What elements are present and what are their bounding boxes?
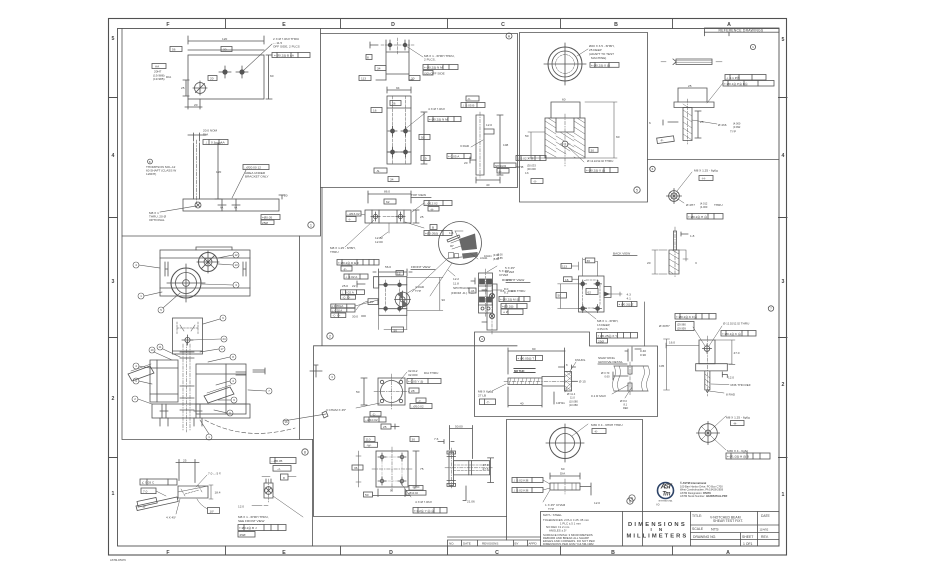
svg-text:SPF10/20: SPF10/20 [495,165,507,168]
svg-text:REVISIONS: REVISIONS [482,542,498,546]
svg-text:(29.980: (29.980 [677,323,686,327]
dim 86.0 [368,191,411,203]
svg-text:0.1: 0.1 [211,141,216,145]
centerline [504,380,576,382]
svg-text:6: 6 [652,167,654,171]
svg-text:-P-: -P- [660,139,664,143]
svg-text:90°: 90° [450,244,454,248]
lower-left frames [331,304,355,308]
bolt plain shank [542,377,565,387]
svg-text:34: 34 [390,178,394,182]
svg-text:BACK VIEW: BACK VIEW [613,252,630,256]
svg-text:⊥ 0.02 A: ⊥ 0.02 A [342,290,355,294]
svg-text:30: 30 [223,48,227,52]
svg-text:20: 20 [194,103,198,107]
svg-text:⌖ Ø0.2Ⓜ M Ⓜ: ⌖ Ø0.2Ⓜ M Ⓜ [500,298,519,302]
leader to holes [244,44,272,70]
svg-text:Ø 4H7: Ø 4H7 [686,203,695,207]
svg-text:16: 16 [565,278,569,282]
svg-text:⌖ Ø0.2Ⓜ B J: ⌖ Ø0.2Ⓜ B J [239,526,257,530]
svg-text:3: 3 [695,261,697,265]
50 dim left [558,284,579,309]
svg-text:DIA THRU: DIA THRU [511,289,525,293]
svg-text:8: 8 [629,499,631,503]
wedge right [204,387,234,403]
title block left cell text [543,513,595,546]
svg-text:36: 36 [354,466,358,470]
svg-text:-A-: -A- [430,208,434,212]
balloon 1 [138,292,162,299]
svg-text:⌖ Ø0.2Ⓜ D E F: ⌖ Ø0.2Ⓜ D E F [338,261,359,265]
lower exploded assembly [128,318,328,433]
svg-text:AA: AA [221,141,226,145]
svg-text:DATE: DATE [463,542,471,546]
lower plate [387,96,411,164]
svg-text:TYP: TYP [730,130,736,134]
dim 50 left [361,378,367,405]
svg-text:-T-: -T- [486,400,490,404]
svg-text:(8.85: (8.85 [497,257,503,260]
svg-text:1: 1 [752,45,754,49]
svg-text:E: E [282,550,286,556]
svg-text:⌖ Ø0.05Ⓜ T: ⌖ Ø0.05Ⓜ T [518,356,535,360]
svg-text:E: E [282,22,286,28]
svg-text:10°: 10° [210,509,215,513]
feature frame [447,154,471,159]
tapped hole top view [667,172,724,219]
dim 20 bottom [185,99,202,109]
svg-text:⊥ 0.1 PⒷ: ⊥ 0.1 PⒷ [726,75,740,80]
adapter ring [548,47,582,81]
12 box [396,271,404,276]
svg-text:3 RAD: 3 RAD [460,144,470,148]
circled B note [148,159,153,164]
svg-text:MACHINE): MACHINE) [591,56,606,60]
circled 1 panel id [308,222,314,228]
slanted grip bar [136,497,178,511]
svg-text:60: 60 [616,135,620,139]
svg-text:4: 4 [135,263,137,267]
svg-text:Ø 0.70: Ø 0.70 [601,371,610,375]
balloon 4 upper [133,262,160,268]
svg-text:108: 108 [503,143,508,147]
svg-text:Ø 12.22/12.02 THRU: Ø 12.22/12.02 THRU [587,159,613,163]
svg-text:8 RAD: 8 RAD [726,393,736,397]
dim 8 above head [559,365,576,369]
62 box inside [586,289,598,295]
svg-text:CHAM: CHAM [505,270,515,274]
svg-text:11.0: 11.0 [570,396,575,400]
svg-text:0.1 R MAX: 0.1 R MAX [591,394,606,398]
svg-text:⊥ 0.05 B: ⊥ 0.05 B [462,104,475,108]
title block outline [541,512,780,547]
svg-text:⌖ Ø0.25Ⓜ X Y: ⌖ Ø0.25Ⓜ X Y [598,334,618,338]
leader 4x [400,482,411,497]
svg-text:25: 25 [181,86,185,90]
svg-text:6: 6 [222,316,224,320]
circled 2 panel id [327,333,333,339]
svg-text:(FROM -D-): (FROM -D-) [451,291,467,295]
8.0 REF leader [625,387,632,398]
svg-text:3 CHAM X 45°: 3 CHAM X 45° [326,408,347,412]
dim 120 top [188,36,264,50]
spotface circle [395,292,410,307]
svg-text:SCALE: SCALE [692,527,704,531]
feature frame [238,525,286,531]
datum -C- [466,96,479,101]
svg-text:86.0: 86.0 [384,190,390,194]
label boxes 56 / 30 [170,47,182,52]
svg-text:AA: AA [234,207,238,210]
svg-text:2: 2 [329,334,331,338]
svg-text:DIMENSIONS: DIMENSIONS [628,522,685,528]
svg-text:-N-: -N- [376,169,380,173]
zone tick marks bottom [226,546,673,555]
frame [517,356,543,361]
left datum stack [344,274,368,279]
snap ring groove label underline [598,363,627,365]
svg-text:KNURL: KNURL [575,358,586,362]
svg-text:8.1: 8.1 [624,403,628,407]
svg-text:(4.012: (4.012 [700,202,708,206]
svg-text:⌖ Ø0.2Ⓜ K FⒷ: ⌖ Ø0.2Ⓜ K FⒷ [676,315,697,319]
svg-text:5: 5 [112,36,115,42]
svg-text:8: 8 [232,355,234,359]
svg-text:REV.: REV. [761,535,769,539]
feature frame (holes) [272,53,310,58]
right feature stack [424,201,452,206]
svg-text:10: 10 [150,348,154,352]
svg-text:-J-: -J- [277,467,281,471]
svg-text:47.0: 47.0 [734,351,740,355]
balloons lower assembly [132,315,335,440]
groove width dim top [625,347,641,361]
dims upper plate [370,42,413,80]
svg-text:30: 30 [587,259,591,263]
right: M8 pin detail [270,458,296,464]
svg-text:DIA THRU: DIA THRU [424,371,438,375]
svg-text:4 X Ø 7.0/6.8: 4 X Ø 7.0/6.8 [415,500,432,504]
svg-text:5: 5 [782,37,785,43]
square plate with bore [378,378,405,405]
view: guide plate outline [188,55,264,99]
svg-text:4: 4 [112,153,115,159]
feature frame [423,65,458,70]
dim 120 shaft [215,143,221,199]
18.4 dim [209,485,213,499]
zone tick marks left [109,98,118,458]
svg-text:2: 2 [112,396,115,402]
svg-text:⌖ 0.2Ⓜ Y Ⓜ Ⓜ: ⌖ 0.2Ⓜ Y Ⓜ Ⓜ [414,509,434,513]
dashed motion curve [205,420,295,433]
circled 1 top right [750,44,755,49]
right L bracket [476,115,484,175]
svg-text:M8 X 1.25 - 6g6g: M8 X 1.25 - 6g6g [694,169,718,173]
dim 90 [508,348,565,374]
svg-text:⌖ Ø0.1Ⓜ K Ⓜ: ⌖ Ø0.1Ⓜ K Ⓜ [722,332,741,336]
svg-text:4 X 45°: 4 X 45° [166,516,177,520]
svg-text:3: 3 [782,279,785,285]
boxes around plate2 [364,437,375,442]
svg-text:⊥: ⊥ [205,141,208,145]
detail circle [439,222,482,265]
knurl leader [570,362,576,371]
svg-text:28: 28 [411,389,415,393]
svg-text:2: 2 [134,397,136,401]
wedge block [178,486,208,498]
svg-text:(29.959: (29.959 [677,326,686,330]
circled 8 panel id [302,449,308,455]
svg-text:-M-: -M- [471,289,476,293]
svg-text:50: 50 [558,294,562,298]
svg-text:⌖ Ø0.1Ⓜ PⒷ FⒷ: ⌖ Ø0.1Ⓜ PⒷ FⒷ [724,82,748,86]
bold thread label [514,369,535,373]
svg-text:16: 16 [373,109,377,113]
svg-text:1: 1 [782,492,785,498]
20 box [208,76,217,81]
svg-text:-F-: -F- [343,268,347,272]
svg-text:⊥ 0.02 X Ⓜ: ⊥ 0.02 X Ⓜ [517,156,533,161]
svg-text:OFF SIDE, 2 PLCS: OFF SIDE, 2 PLCS [273,45,300,49]
base plate [152,404,250,418]
cham leader [543,490,550,502]
svg-text:4 PLCS: 4 PLCS [597,327,608,331]
svg-text:AA: AA [155,65,160,69]
svg-text:⊥ 0.02 A: ⊥ 0.02 A [332,308,343,312]
svg-text:Ø 12.02/12.02 THRU: Ø 12.02/12.02 THRU [723,322,749,326]
svg-text:90: 90 [442,298,446,302]
right view small [487,284,497,330]
svg-text:REFERENCE DRAWINGS: REFERENCE DRAWINGS [719,29,764,33]
circled 5 panel id [634,187,640,193]
panel P6 border (upper-middle-right: test-machine adapter) [520,33,648,203]
svg-text:120FH): 120FH) [146,172,156,176]
4 RAD leader [406,289,414,294]
small right view column part [479,273,493,313]
dim 60 [550,473,580,479]
svg-text:⌖ Ø0.2Ⓜ N M: ⌖ Ø0.2Ⓜ N M [429,118,448,122]
svg-text:⌴Ø16.02: ⌴Ø16.02 [347,212,360,216]
svg-text:60: 60 [270,74,274,78]
channel side view (T shape) [449,452,454,485]
zone tick marks top [226,19,673,29]
svg-text:30: 30 [591,149,595,153]
svg-text:⌖ Ø0.2Ⓜ Z: ⌖ Ø0.2Ⓜ Z [619,302,634,306]
dim 60 right [585,102,617,158]
svg-text:⌴Ø0.05: ⌴Ø0.05 [272,459,283,463]
svg-text:8: 8 [367,56,369,60]
dims [666,343,699,348]
leader [406,46,423,57]
dim 40 bottom [476,177,500,183]
svg-text:27 LB: 27 LB [478,394,486,398]
washer ring [550,428,581,459]
balloon 3 [202,282,239,288]
svg-text:TYP: TYP [548,507,554,511]
panel P10 border (washer) [507,420,643,547]
bolt cross AA1 [218,199,226,211]
ASTM copyright text [680,481,728,498]
svg-text:⌴Ø10.02: ⌴Ø10.02 [407,491,418,495]
FRONT VIEW label underline [411,269,435,271]
svg-text:9: 9 [233,398,235,402]
dim 20 right [279,195,285,199]
bolt head knurled [565,372,572,392]
spindle top block [699,340,715,364]
upper plate [386,40,409,80]
svg-text:0.60: 0.60 [605,375,611,379]
svg-text:25: 25 [688,84,692,88]
outer border frame [109,19,787,556]
svg-text:6: 6 [229,411,231,415]
plate2 [376,451,408,487]
svg-text:⌴Ø10.02: ⌴Ø10.02 [365,418,378,422]
11.4 leader [565,388,567,392]
svg-text:12.0: 12.0 [594,501,600,505]
svg-text:9: 9 [135,379,137,383]
flange bar [696,364,728,371]
optional tapped hole [195,202,201,208]
svg-text:-H-: -H- [733,422,737,426]
svg-text:B: B [432,226,434,230]
svg-text:C: C [501,22,505,28]
svg-text:NO.: NO. [449,542,455,546]
svg-text:⌖ 0.05 Y Ⓜ: ⌖ 0.05 Y Ⓜ [408,380,423,384]
0.1 R MAX leader [612,385,628,394]
svg-text:NTS: NTS [711,528,719,532]
base plate [183,199,279,211]
svg-text:TITLE:: TITLE: [692,514,702,518]
svg-text:-Q-: -Q- [498,170,502,173]
svg-text:(10.080: (10.080 [569,403,578,407]
svg-text:8.2: 8.2 [504,291,509,295]
right block [196,364,246,414]
pin top right [236,372,246,375]
dims above [583,258,598,276]
svg-text:25Ø: 25Ø [262,221,268,225]
svg-text:18.4: 18.4 [215,491,221,495]
svg-text:120: 120 [216,170,221,174]
svg-text:-I-: -I- [348,218,351,222]
bottom frames [516,156,546,161]
svg-text:10H11: 10H11 [484,254,492,258]
svg-text:5: 5 [636,188,638,192]
svg-text:(4.000: (4.000 [733,122,741,126]
svg-text:1.3: 1.3 [449,231,454,235]
svg-text:34: 34 [377,67,381,71]
svg-text:INTERNATIONAL: INTERNATIONAL [658,500,672,503]
svg-text:7.0 ⌴ 5 ∇: 7.0 ⌴ 5 ∇ [208,472,221,476]
svg-text:M36 THD REF: M36 THD REF [731,383,751,387]
svg-text:ASTM-D5379: ASTM-D5379 [110,558,126,562]
bottom boxes [374,168,387,173]
svg-text:-C-: -C- [372,413,376,417]
svg-text:1 OF1: 1 OF1 [743,542,753,546]
left clamp block [150,360,178,402]
circled 9 near logo [629,495,635,501]
svg-text:30: 30 [412,438,416,442]
svg-text:3: 3 [112,279,115,285]
svg-text:(30) OFF SIDE: (30) OFF SIDE [424,72,445,76]
clip far right [322,411,328,418]
AA datum box [152,64,166,69]
svg-text:11/4/92: 11/4/92 [760,528,769,532]
svg-text:12: 12 [397,271,401,275]
svg-text:50: 50 [525,134,529,138]
svg-text:12.0: 12.0 [728,376,734,380]
svg-text:BY: BY [515,542,519,546]
svg-text:113: 113 [562,265,567,269]
base feature frame [261,215,280,220]
handle rod right [310,365,322,377]
svg-text:⌖ Ø0.2Ⓜ X Ⓜ: ⌖ Ø0.2Ⓜ X Ⓜ [591,63,610,67]
svg-text:M36 X 4 - 6g6g: M36 X 4 - 6g6g [727,449,748,453]
balloon 13 [218,262,239,268]
center column [183,342,190,432]
balloon 12 [218,252,239,258]
svg-text:Ø 30H7: Ø 30H7 [659,324,670,328]
svg-text:A: A [508,34,511,38]
M8 note with frames (notch area) [597,319,618,331]
svg-text:25Ø: 25Ø [240,533,246,537]
area frame [243,165,269,170]
snap ring groove detail segment [614,366,648,391]
svg-text:16: 16 [284,420,288,424]
title block right text [692,514,771,546]
upper assembly housing [160,250,250,296]
svg-text:8: 8 [283,476,285,480]
top view body [365,210,411,223]
svg-text:F: F [166,22,169,28]
svg-text:-C-: -C- [467,97,471,101]
panel P8 border (bolt & snap ring) [475,332,658,417]
TOP VIEW label underline [411,197,431,199]
svg-text:FRONT VIEW: FRONT VIEW [411,265,430,269]
circled 8 panel id P10 [627,498,633,504]
svg-text:I-D: I-D [656,503,660,507]
small screw right [253,368,265,374]
flatness frame [203,140,228,145]
bolt cross AA2 [232,199,240,211]
svg-text:BRACKET ONLY: BRACKET ONLY [245,175,269,179]
bolt hole B2 [240,70,244,74]
side slots [165,262,246,276]
Y box right [416,398,426,403]
leader 12.02 [380,223,389,238]
svg-text:60: 60 [561,467,565,471]
svg-text:-K-: -K- [594,430,598,434]
revisions strip [448,537,541,546]
hatch right wall [574,118,585,158]
svg-text:90: 90 [390,489,393,493]
svg-text:22: 22 [352,284,356,288]
svg-text:⌖ 0.05ⓂA: ⌖ 0.05ⓂA [332,304,344,308]
panel P3 border (bottom-left: wedge details) [312,440,314,547]
panel P5 border (center: fixture body views) [314,188,518,346]
zone letters bottom [166,550,730,556]
svg-text:50.00: 50.00 [455,425,463,429]
svg-text:12: 12 [234,253,238,257]
svg-text:⌖Ø0.05: ⌖Ø0.05 [262,216,272,220]
svg-text:56: 56 [172,48,176,52]
svg-text:OPTIONAL: OPTIONAL [149,218,165,222]
svg-text:-V-: -V- [413,486,417,490]
svg-text:13: 13 [234,263,238,267]
svg-text:-C- -D-: -C- -D- [343,296,351,300]
svg-text:113: 113 [361,77,366,81]
svg-text:17: 17 [220,347,224,351]
svg-text:8: 8 [566,363,568,367]
